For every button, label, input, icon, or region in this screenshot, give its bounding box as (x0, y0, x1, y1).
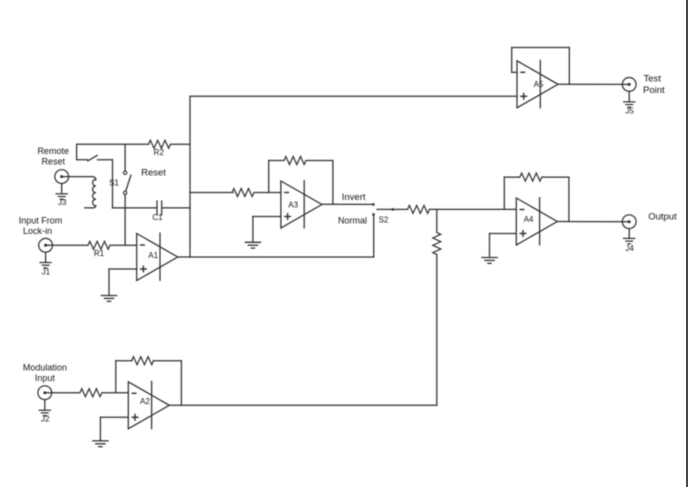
ground at J1 (45, 252, 47, 262)
connector J1 (39, 238, 53, 252)
wire: A3 non-inverting input to ground (253, 217, 281, 243)
connector J2 (38, 386, 52, 400)
wire: A1 output vertical bus node (189, 96, 191, 257)
resistor modulation sum (vertical) (433, 209, 441, 405)
svg-text:S2: S2 (379, 216, 389, 225)
svg-text:A3: A3 (288, 201, 298, 210)
ground at A4 (481, 258, 498, 264)
wire: A4 non-inverting input to ground (490, 234, 517, 258)
relay coil K1 (85, 177, 96, 208)
svg-text:Normal: Normal (338, 215, 367, 225)
svg-text:Input: Input (35, 373, 56, 383)
svg-text:R1: R1 (94, 249, 105, 258)
connector J4 (622, 215, 636, 229)
switch S1 (123, 144, 130, 245)
ground at J4 (628, 229, 630, 239)
resistor R2 (77, 140, 190, 148)
svg-text:Output: Output (648, 212, 677, 223)
resistor A2 feedback (116, 357, 182, 406)
resistor R1 (46, 241, 137, 249)
svg-text:Point: Point (643, 85, 665, 96)
svg-text:A5: A5 (534, 80, 544, 89)
op-amp A3 (281, 180, 322, 229)
svg-text:Input From: Input From (19, 216, 63, 226)
svg-text:J3: J3 (58, 198, 67, 207)
wire: J3 to relay coil (62, 176, 93, 178)
connector J5 (622, 78, 636, 92)
connector J3 (55, 170, 69, 184)
op-amp A5 (517, 60, 558, 109)
wire: A5 output to J5 (558, 83, 629, 85)
capacitor C1 (113, 201, 191, 215)
svg-text:R2: R2 (154, 148, 165, 157)
svg-text:Reset: Reset (41, 157, 65, 167)
svg-text:Invert: Invert (342, 192, 366, 203)
svg-text:A1: A1 (148, 251, 158, 260)
switch S2 (372, 203, 394, 216)
svg-text:Reset: Reset (141, 167, 166, 178)
resistor A4 feedback (504, 173, 569, 221)
resistor A3 feedback (269, 157, 333, 205)
resistor A2 input (45, 389, 129, 397)
ground at J3 (61, 184, 63, 194)
svg-text:S1: S1 (109, 179, 119, 188)
wire: A4 output to J4 (557, 221, 629, 223)
wire: A1 output to Normal contact (178, 256, 374, 258)
wire: bus to A5 non-inverting input (190, 95, 517, 97)
svg-text:J1: J1 (42, 268, 51, 277)
svg-text:C1: C1 (152, 213, 163, 222)
op-amp A2 (128, 381, 169, 430)
wire: A2 non-inverting input to ground (100, 417, 128, 441)
resistor S2 to A4 summing (394, 205, 516, 213)
ground at A3 (245, 242, 262, 248)
ground at J5 (628, 91, 630, 102)
svg-text:A2: A2 (140, 397, 150, 406)
svg-text:Modulation: Modulation (23, 363, 67, 373)
wire: A1 non-inverting input to ground (109, 269, 137, 296)
wire: Normal contact down to A1 output (373, 216, 375, 257)
svg-text:Lock-in: Lock-in (23, 226, 52, 236)
ground at A1 (101, 296, 118, 302)
wire: A3 output to Invert contact (322, 203, 372, 205)
ground at J2 (44, 400, 46, 411)
resistor A3 input (190, 189, 281, 197)
op-amp A4 (516, 197, 557, 246)
svg-text:J2: J2 (41, 415, 50, 424)
wire: A2 output to summing resistor (169, 404, 437, 406)
svg-text:J5: J5 (625, 107, 634, 116)
ground at A2 (92, 441, 109, 447)
svg-text:Remote: Remote (37, 146, 69, 156)
svg-text:Test: Test (644, 74, 662, 85)
op-amp A1 (137, 233, 178, 282)
wire: A5 feedback loop (512, 48, 570, 85)
svg-text:A4: A4 (524, 215, 534, 224)
relay reset contact (remote) (77, 144, 113, 208)
svg-text:J4: J4 (625, 244, 634, 253)
